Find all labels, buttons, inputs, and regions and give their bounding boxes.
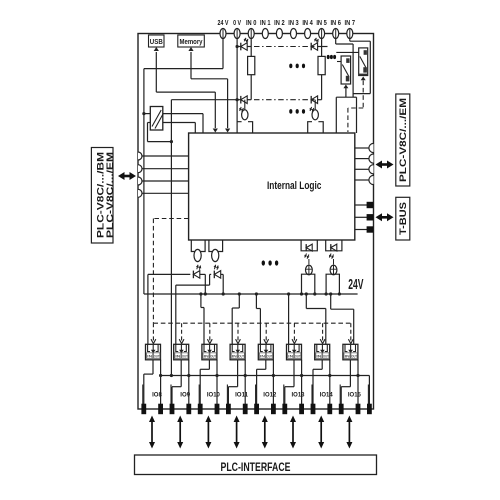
switch U1 (IN6) (341, 56, 351, 84)
wire feed cell5 (255, 292, 258, 295)
wire dashed drop cell7 (322, 323, 324, 341)
node left bus pin 2 (138, 165, 142, 173)
wire dashed control bus (153, 322, 350, 324)
wire switch U1 output (345, 88, 347, 97)
arrow T-BUS (381, 216, 388, 219)
wire IN6 (335, 39, 337, 45)
diode IN5 led (311, 96, 317, 104)
svg-text:IN: IN (316, 354, 321, 359)
wire dashed drop cell4 (237, 323, 239, 341)
wire dashed control trunk (153, 218, 188, 220)
arrow left bus (124, 175, 131, 178)
terminal square 2 (158, 404, 163, 415)
terminal IN 7 (347, 29, 353, 39)
node right bus pin 3 (355, 168, 369, 170)
node left bus pin 4 (138, 189, 142, 197)
arrow PLC-interface 5 (264, 421, 266, 443)
junction distribution node (170, 140, 173, 143)
optocoupler IN0 tab (237, 122, 253, 133)
terminal square 14 (327, 404, 332, 415)
node right bus pin 4 (355, 179, 369, 181)
terminal IN 6 (333, 29, 339, 39)
svg-text:IO9: IO9 (180, 391, 190, 398)
svg-text:0 V: 0 V (233, 18, 241, 27)
wire dashed drop cell5 (265, 323, 267, 341)
svg-text:IN 1: IN 1 (260, 18, 271, 27)
wire feed cell6 (287, 292, 290, 295)
wire common drop 4 (244, 360, 246, 409)
optocoupler IN0 receiver (242, 110, 248, 120)
arrow PLC-interface 8 (348, 421, 350, 443)
junction distribution to bus (170, 374, 173, 377)
node left bus pin 1 (138, 152, 142, 160)
wire switch U2 input (336, 51, 363, 53)
svg-text:IN 5: IN 5 (316, 18, 327, 27)
wire output IO8 to terminal (152, 360, 154, 374)
svg-text:Internal Logic: Internal Logic (267, 180, 322, 192)
outer device box (138, 34, 374, 410)
wire output IO10 to terminal (208, 360, 210, 370)
wire IN0 led drop (244, 100, 246, 110)
arrow right bus (381, 163, 388, 166)
svg-text:IO15: IO15 (348, 391, 361, 398)
wire dashed drop cell3 (209, 323, 211, 341)
label box T-BUS (396, 197, 410, 240)
node ellipsis upper inputs (289, 64, 292, 69)
terminal square 7 (226, 404, 231, 415)
svg-text:IO13: IO13 (292, 391, 305, 398)
svg-text:IO12: IO12 (263, 391, 276, 398)
diode output left 1 (193, 271, 199, 279)
svg-text:IN: IN (204, 354, 209, 359)
optocoupler output left 2 hanger (209, 240, 223, 252)
wire separator 3 (226, 385, 228, 410)
wire output IO15 to terminal (349, 360, 351, 387)
wire common drop 8 (357, 360, 359, 409)
wire separator 5 (283, 385, 285, 410)
terminal square 12 (299, 404, 304, 415)
terminal IN 1 (262, 29, 268, 39)
terminal square 9 (254, 404, 259, 415)
wire separator 8 (367, 385, 369, 410)
terminal square 16 (356, 404, 361, 415)
svg-text:IN: IN (147, 354, 152, 359)
resistor IN0 (248, 56, 255, 74)
wire feed cell1 (147, 274, 149, 344)
svg-text:IN 7: IN 7 (345, 18, 356, 27)
wire supply output upper (163, 113, 203, 115)
wire dashed drop cell1 (152, 323, 154, 341)
optocoupler IN5 receiver (312, 110, 318, 120)
wire supply output lower (163, 122, 196, 124)
svg-text:OUT: OUT (238, 354, 244, 359)
wire feed cell3 (199, 292, 202, 295)
wire feed cell7 (305, 292, 308, 295)
wire output IO13 to terminal (293, 360, 295, 387)
indicator 2 socket (326, 274, 339, 294)
wire feed cell8 (329, 292, 332, 295)
wire common bus (161, 375, 370, 377)
arrow PLC-interface 1 (151, 421, 153, 443)
wire output drive row 2 (176, 284, 210, 286)
wire separator 2 (198, 385, 200, 410)
svg-text:OUT: OUT (267, 354, 273, 359)
arrow PLC-interface 4 (236, 421, 238, 443)
terminal square 11 (282, 404, 287, 415)
diode output right 1 (306, 244, 312, 251)
svg-text:IN 0: IN 0 (246, 18, 257, 27)
wire supply input (144, 113, 150, 115)
driver cell IO9 (174, 344, 189, 360)
wire IN0 top branch (237, 46, 241, 48)
terminal 0 V (234, 29, 240, 39)
node T-BUS pin 2 (355, 216, 367, 218)
wire dash-dot led bus (254, 99, 311, 101)
terminal IN 5 (319, 29, 325, 39)
terminal IN 3 (291, 29, 297, 39)
junction power supply input (142, 112, 145, 115)
optocoupler output left 2 emitter (212, 249, 219, 261)
terminal 24 V (220, 29, 226, 39)
wire separator 1 (170, 385, 172, 410)
svg-text:IO8: IO8 (152, 391, 162, 398)
diode output left 2 (214, 271, 220, 279)
label box PLC-V8C EM right (396, 94, 410, 186)
wire separator 6 (311, 385, 313, 410)
Memory box (178, 35, 205, 47)
wire separator 0 (142, 385, 144, 410)
junction 0V lower (236, 98, 239, 101)
optocoupler output left 1 emitter (194, 249, 201, 261)
arrow PLC-interface 3 (207, 421, 209, 443)
terminal square 17 (367, 404, 372, 415)
wire separator 4 (255, 385, 257, 410)
svg-text:IN 3: IN 3 (288, 18, 299, 27)
power supply converter (150, 107, 163, 131)
terminal IN 4 (305, 29, 311, 39)
wire output IO12 to terminal (265, 360, 267, 370)
internal logic block (189, 133, 355, 240)
node ellipsis output drivers (262, 260, 265, 265)
driver cell IO13 (287, 344, 302, 360)
diode output right 2 (331, 244, 337, 251)
driver cell IO14 (315, 344, 330, 360)
driver cell IO12 (258, 344, 273, 360)
svg-text:Memory: Memory (180, 39, 203, 46)
wire dash-dot clamp bus (254, 46, 311, 48)
diode IN0 led (241, 96, 247, 104)
wire IN0 input (250, 39, 252, 57)
driver cell IO15 (343, 344, 358, 360)
wire output IO9 to terminal (180, 360, 182, 387)
wire IN7 (349, 39, 351, 42)
junction rail tap d1 (204, 292, 207, 295)
svg-text:IN: IN (345, 354, 350, 359)
wire 24V terminal feed (222, 39, 224, 69)
node ellipsis switch inputs (327, 55, 330, 59)
wire IN0 lower branch (171, 99, 240, 101)
terminal square 10 (271, 404, 276, 415)
svg-text:OUT: OUT (210, 354, 216, 359)
lamp output right 2 (333, 259, 335, 265)
driver cell IO8 (146, 344, 161, 360)
terminal square 15 (339, 404, 344, 415)
terminal square 8 (243, 404, 248, 415)
wire common drop 3 (216, 360, 218, 409)
label box PLC-V8C BM/EM left (91, 148, 113, 244)
terminal square 4 (186, 404, 191, 415)
wire separator 7 (339, 385, 341, 410)
svg-text:USB: USB (150, 39, 163, 46)
svg-text:OUT: OUT (295, 354, 301, 359)
svg-text:PLC-V8C/.../BM: PLC-V8C/.../BM (95, 152, 105, 238)
wire output drive row (148, 273, 190, 275)
arrow PLC-interface 2 (179, 421, 181, 443)
svg-text:PLC-V8C/.../EM: PLC-V8C/.../EM (105, 152, 115, 238)
optocoupler output left 1 hanger (191, 240, 205, 252)
terminal square 6 (215, 404, 220, 415)
node T-BUS pin 3 (355, 229, 367, 231)
wire distribution 0V rail (170, 100, 172, 142)
wire feed cell2 (175, 285, 177, 344)
diode IN5 clamp (311, 43, 317, 51)
indicator 1 socket (302, 274, 315, 294)
svg-text:IO11: IO11 (235, 391, 248, 398)
svg-text:IN: IN (288, 354, 293, 359)
wire output IO14 to terminal (321, 360, 323, 370)
svg-text:IN 6: IN 6 (330, 18, 341, 27)
indicator output right 1 hanger (301, 240, 317, 251)
arrow PLC-interface 6 (292, 421, 294, 443)
resistor IN5 (318, 56, 325, 74)
svg-text:IN: IN (175, 354, 180, 359)
wire switch U1 input (337, 61, 347, 63)
svg-text:OUT: OUT (323, 354, 329, 359)
arrow PLC-interface 7 (320, 421, 322, 443)
wire common drop 7 (329, 360, 331, 409)
wire common drop 2 (188, 360, 190, 409)
wire output IO11 to terminal (237, 360, 239, 387)
indicator output right 2 hanger (326, 240, 342, 251)
node left bus pin 3 (138, 177, 142, 185)
terminal square 5 (198, 404, 203, 415)
node ellipsis lower inputs (289, 109, 292, 114)
wire common drop 6 (301, 360, 303, 409)
wire common drop 1 (160, 360, 162, 409)
svg-text:IO10: IO10 (207, 391, 220, 398)
terminal square 13 (311, 404, 316, 415)
svg-text:24V: 24V (348, 277, 363, 293)
svg-text:OUT: OUT (154, 354, 160, 359)
junction rail tap d2 (222, 292, 225, 295)
driver cell IO11 (230, 344, 245, 360)
wire common drop 5 (272, 360, 274, 409)
junction 0V upper (236, 45, 239, 48)
terminal square 1 (141, 404, 146, 415)
wire USB to internal logic (155, 52, 157, 92)
switch U2 (IN7) (359, 48, 368, 76)
wire dashed drop cell2 (181, 323, 183, 341)
node right bus pin 2 (355, 158, 369, 160)
svg-text:IN: IN (260, 354, 265, 359)
USB box (149, 35, 165, 47)
wire IN5 input (321, 39, 323, 57)
node right bus pin 1 (355, 147, 369, 149)
wire feed cell4 (238, 292, 241, 295)
wire dashed drop cell6 (293, 323, 295, 341)
driver cell IO10 (202, 344, 217, 360)
wire supply left lower (148, 122, 151, 124)
svg-text:IN 2: IN 2 (274, 18, 285, 27)
svg-text:IN 4: IN 4 (302, 18, 313, 27)
lamp output right 1 (308, 259, 310, 265)
wire 0V terminal (236, 39, 238, 122)
diode IN0 clamp (241, 43, 247, 51)
svg-text:OUT: OUT (182, 354, 188, 359)
svg-text:OUT: OUT (351, 354, 357, 359)
svg-text:PLC-V8C/.../EM: PLC-V8C/.../EM (398, 98, 408, 182)
svg-text:T-BUS: T-BUS (398, 202, 408, 235)
wire IN5 led drop (314, 100, 316, 110)
node T-BUS pin 1 (355, 204, 367, 206)
wire Memory to internal logic (190, 52, 192, 79)
terminal IN 0 (248, 29, 254, 39)
svg-text:IN: IN (232, 354, 237, 359)
svg-text:IO14: IO14 (320, 391, 333, 398)
svg-text:24 V: 24 V (218, 18, 229, 27)
svg-text:PLC-INTERFACE: PLC-INTERFACE (221, 462, 291, 474)
wire 24V rail (144, 293, 358, 295)
PLC-INTERFACE box (135, 455, 377, 475)
optocoupler IN5 tab (308, 122, 324, 133)
wire dashed drop cell8 (350, 323, 352, 341)
terminal square 3 (170, 404, 175, 415)
wire switch U2 control dashed (361, 77, 366, 81)
terminal IN 2 (276, 29, 282, 39)
